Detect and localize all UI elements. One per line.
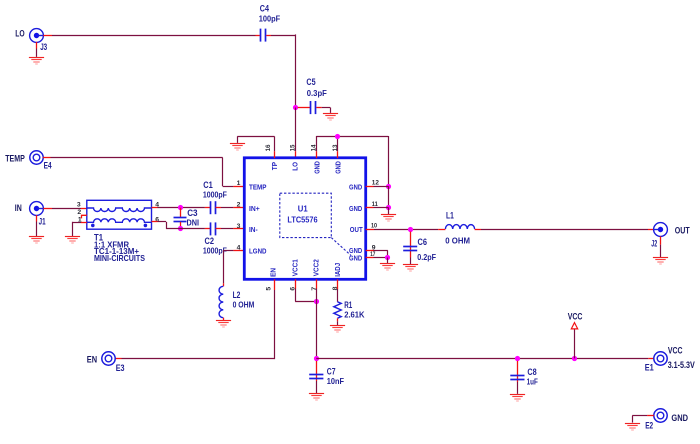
svg-text:1: 1 (237, 180, 241, 187)
wire (295, 301, 316, 303)
svg-text:IN-: IN- (249, 225, 258, 234)
wire (387, 258, 389, 264)
svg-text:C1: C1 (203, 180, 213, 190)
ground (29, 58, 44, 65)
svg-text:TEMP: TEMP (249, 182, 267, 191)
pin stub U1 pin 6 (295, 279, 297, 288)
wire down to L2 (223, 250, 225, 283)
svg-text:LTC5576: LTC5576 (287, 215, 317, 225)
ground (216, 321, 231, 328)
wire C4 to corner (271, 35, 295, 37)
svg-text:GND: GND (312, 161, 321, 174)
svg-text:GND: GND (349, 204, 362, 213)
wire (660, 245, 662, 258)
pin stub R1 bottom (337, 318, 339, 321)
svg-text:15: 15 (289, 144, 296, 151)
ground (330, 326, 345, 333)
svg-text:GND: GND (349, 254, 362, 263)
wire to pin 15 (295, 108, 297, 152)
pin stub T1 pin 4 (152, 207, 158, 209)
pin stub U1 pin 8 (337, 279, 339, 289)
pin stub E4 (43, 157, 51, 159)
capacitor C8 (510, 361, 524, 382)
wire pin13 (337, 136, 339, 151)
svg-text:C4: C4 (260, 3, 269, 13)
svg-text:1000pF: 1000pF (203, 190, 227, 199)
svg-text:2: 2 (77, 209, 81, 216)
svg-text:LO: LO (15, 28, 24, 38)
wire (72, 222, 74, 236)
pin stub J2 (648, 229, 654, 231)
pin stub U1 pin 15 (295, 151, 297, 158)
ground (403, 265, 418, 272)
pin stub J1 right (43, 208, 52, 210)
pin stub U1 pin 11 (366, 207, 374, 209)
svg-text:GND: GND (349, 182, 362, 191)
junction C8 (515, 356, 520, 361)
svg-text:U1: U1 (298, 204, 308, 214)
svg-text:E4: E4 (44, 161, 52, 171)
pin stub T1 pin 6 (152, 221, 158, 223)
svg-text:VCC2: VCC2 (312, 259, 321, 276)
svg-text:5: 5 (265, 287, 272, 291)
svg-text:C7: C7 (327, 367, 336, 377)
wire LGND (223, 250, 233, 252)
wire (237, 136, 274, 138)
svg-text:6: 6 (155, 216, 159, 223)
svg-text:2: 2 (237, 201, 241, 208)
svg-text:LO: LO (291, 162, 300, 171)
pin stub E1 (648, 358, 654, 360)
connector E4 (TEMP turret) (30, 151, 43, 164)
svg-text:R1: R1 (344, 300, 352, 310)
svg-text:TEMP: TEMP (5, 154, 25, 164)
capacitor C2 (205, 222, 221, 235)
wire LO to C4 (52, 35, 256, 37)
wire pin11 (374, 207, 389, 209)
svg-text:TP: TP (270, 162, 279, 170)
pin stub U1 pin 12 (366, 186, 374, 188)
wire (223, 186, 234, 188)
wire T1 pin1 to ground (73, 222, 81, 224)
wire (237, 136, 239, 143)
svg-text:OUT: OUT (350, 225, 363, 234)
ground (65, 237, 80, 244)
wire pin16 (274, 136, 276, 151)
pin stub T1 pin 3 (81, 208, 87, 210)
svg-text:J2: J2 (651, 239, 657, 249)
svg-text:DNI: DNI (187, 219, 200, 228)
wire VCC row (316, 358, 648, 360)
ground (380, 264, 395, 271)
wire top gnd bus (316, 136, 388, 138)
svg-text:E1: E1 (645, 363, 654, 373)
capacitor C4 (256, 29, 272, 42)
wire (166, 222, 168, 229)
junction pin11 (386, 205, 391, 210)
wire (222, 158, 224, 187)
pin stub U1 pin 16 (274, 151, 276, 158)
wire EN down (274, 290, 276, 359)
pin stub U1 pin 3 (233, 228, 244, 230)
svg-text:L2: L2 (233, 290, 241, 300)
svg-text:MINI-CIRCUITS: MINI-CIRCUITS (94, 254, 145, 263)
svg-text:E2: E2 (645, 420, 653, 430)
wire C1 to U1 pin 2 (221, 207, 233, 209)
pin stub U1 pin 1 (233, 186, 244, 188)
svg-text:EN: EN (268, 268, 277, 277)
wire (632, 416, 634, 423)
junction pin12 (386, 184, 391, 189)
power symbol VCC (571, 323, 577, 359)
wire EN row (122, 358, 275, 360)
svg-text:3: 3 (237, 223, 241, 230)
svg-text:12: 12 (372, 179, 379, 186)
svg-text:J1: J1 (39, 216, 46, 226)
wire down to C5 node (295, 34, 297, 107)
wire E2 (632, 415, 647, 417)
capacitor C3 (174, 208, 187, 229)
svg-text:2.61K: 2.61K (344, 311, 364, 320)
inductor L1 (438, 225, 481, 230)
junction C3 bottom (178, 226, 183, 231)
capacitor C6 (403, 232, 417, 258)
junction C7 (314, 356, 319, 361)
wire (322, 107, 331, 109)
pin stub U1 pin 9 (366, 250, 374, 252)
wire (337, 321, 339, 325)
wire C6 to ground (410, 258, 412, 265)
pin stub U1 pin 5 (274, 279, 276, 290)
wire C8 to ground (517, 382, 519, 394)
wire pin17 (374, 257, 388, 259)
wire OUT to L1 (374, 229, 438, 231)
svg-text:10: 10 (371, 222, 377, 229)
pin stub U1 pin 7 (316, 279, 318, 288)
capacitor C1 (205, 201, 221, 214)
pin stub E2 (647, 415, 654, 417)
ground (29, 237, 44, 244)
svg-text:C3: C3 (187, 208, 197, 218)
wire (36, 49, 38, 57)
wire C2 to U1 pin 3 (221, 228, 233, 230)
wire pin14 (316, 136, 318, 151)
junction VCC symbol (572, 356, 577, 361)
connector J3 (LO jack) (30, 29, 44, 43)
ground (381, 215, 396, 222)
pin stub U1 pin 17 (366, 257, 374, 259)
junction C3 top (178, 205, 183, 210)
svg-text:GND: GND (671, 413, 688, 423)
wire VCC1 (295, 289, 297, 302)
svg-text:IN+: IN+ (249, 204, 260, 213)
wire down right (388, 136, 390, 186)
pin stub J2 bottom (660, 236, 662, 244)
ground (230, 144, 245, 151)
svg-text:E3: E3 (116, 363, 125, 373)
wire L1 to J2 (481, 229, 648, 231)
wire (388, 186, 390, 207)
svg-text:100pF: 100pF (259, 15, 280, 24)
ground (323, 114, 338, 121)
wire T1.4 to C1 (158, 207, 205, 209)
connector E3 (EN turret) (102, 352, 115, 365)
svg-text:EN: EN (87, 354, 98, 364)
junction pin13 (335, 134, 340, 139)
svg-text:10nF: 10nF (327, 377, 344, 386)
svg-text:C6: C6 (418, 237, 428, 247)
wire pin9 (374, 250, 388, 252)
svg-text:0.3pF: 0.3pF (307, 89, 327, 98)
svg-text:0 OHM: 0 OHM (233, 301, 255, 310)
pin stub U1 pin 13 (337, 151, 339, 158)
svg-text:4: 4 (237, 244, 241, 251)
svg-text:IADJ: IADJ (333, 263, 342, 277)
svg-text:0.2pF: 0.2pF (417, 253, 436, 262)
svg-text:LGND: LGND (249, 247, 267, 256)
connector J1 (IN jack) (30, 202, 44, 216)
svg-text:VCC: VCC (568, 311, 583, 321)
ground (625, 424, 640, 431)
connector J2 (OUT jack) (654, 223, 668, 237)
connector E1 (VCC turret) (654, 352, 667, 365)
junction C5 node (293, 105, 298, 110)
svg-text:C2: C2 (205, 236, 215, 246)
svg-text:OUT: OUT (675, 226, 690, 236)
svg-text:16: 16 (265, 144, 272, 151)
pin stub T1 pin 1 (81, 222, 87, 224)
svg-text:11: 11 (372, 201, 378, 208)
wire to C2 (166, 228, 205, 230)
wire IN to T1 (52, 208, 81, 210)
pin stub U1 pin 10 (366, 229, 374, 231)
svg-text:J3: J3 (40, 42, 47, 52)
connector E2 (GND turret) (654, 409, 667, 422)
pin stub T1 pin 2 (82, 215, 87, 218)
wire T1.6 (158, 221, 167, 223)
pin stub J3 bottom (36, 42, 38, 49)
svg-text:C5: C5 (306, 77, 315, 87)
svg-text:GND: GND (334, 161, 343, 174)
wire (387, 250, 389, 257)
svg-text:3: 3 (77, 202, 81, 209)
svg-text:L1: L1 (446, 211, 454, 221)
svg-text:VCC1: VCC1 (290, 259, 299, 276)
pin stub U1 pin 2 (233, 207, 244, 209)
ground (653, 258, 668, 265)
IC U1 LTC5576 (244, 158, 365, 279)
ground (510, 395, 525, 402)
junction VCC1-VCC2 (314, 299, 319, 304)
pin stub U1 pin 14 (316, 151, 318, 158)
svg-text:VCC: VCC (668, 346, 683, 356)
wire C7 to ground (316, 381, 318, 393)
svg-text:0 OHM: 0 OHM (445, 237, 470, 246)
pin stub J1 bottom (36, 215, 38, 222)
resistor R1 (334, 302, 341, 318)
transformer T1 (87, 200, 152, 229)
wire (330, 108, 332, 113)
ground (309, 394, 324, 401)
wire VCC2 down (316, 289, 318, 359)
pin stub J3 right (43, 35, 52, 37)
svg-text:C8: C8 (527, 367, 536, 377)
pin stub E3 (115, 358, 121, 360)
capacitor C5 (298, 101, 322, 114)
wire (36, 222, 38, 237)
pin stub U1 pin 4 (233, 250, 244, 252)
junction C6 (408, 227, 413, 232)
inductor L2 (219, 283, 223, 320)
wire pin12 (374, 186, 389, 188)
svg-text:IN: IN (15, 203, 22, 213)
svg-text:1uF: 1uF (527, 378, 538, 387)
wire IADJ (337, 289, 339, 302)
wire (388, 207, 390, 214)
capacitor C7 (309, 361, 323, 381)
svg-text:3.1-5.3V: 3.1-5.3V (668, 360, 696, 370)
junction pin17 (385, 255, 390, 260)
wire TEMP (51, 157, 223, 159)
